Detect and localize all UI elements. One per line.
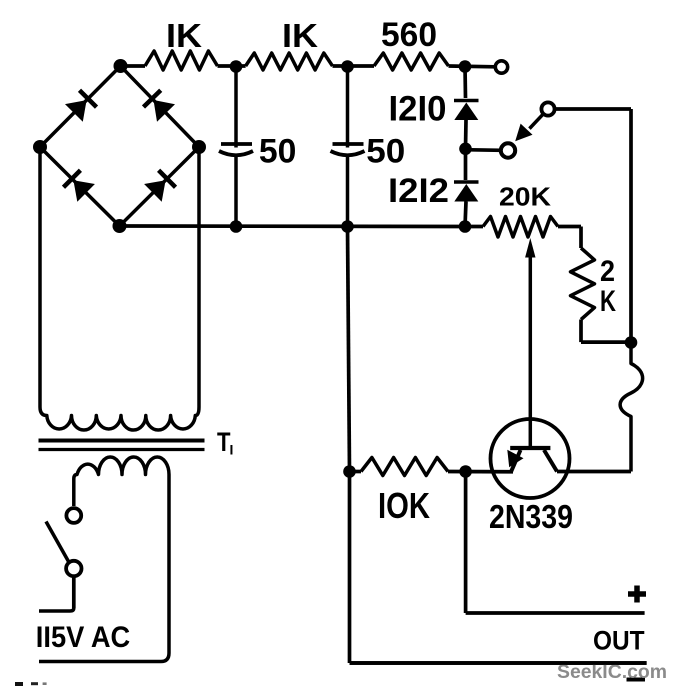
svg-text:50: 50 — [366, 133, 405, 171]
svg-text:IK: IK — [166, 17, 202, 54]
svg-text:2N339: 2N339 — [489, 498, 573, 535]
svg-text:I2I2: I2I2 — [388, 172, 449, 210]
svg-text:20K: 20K — [499, 182, 551, 212]
svg-text:50: 50 — [259, 133, 297, 171]
svg-text:IOK: IOK — [378, 485, 430, 526]
svg-text:OUT: OUT — [593, 626, 645, 656]
svg-text:K: K — [600, 285, 616, 318]
svg-text:IK: IK — [282, 17, 318, 54]
svg-text:II5V AC: II5V AC — [36, 621, 130, 654]
svg-text:560: 560 — [381, 16, 437, 54]
svg-text:I2I0: I2I0 — [389, 90, 447, 129]
svg-text:I: I — [230, 442, 234, 458]
svg-text:2: 2 — [600, 255, 615, 288]
